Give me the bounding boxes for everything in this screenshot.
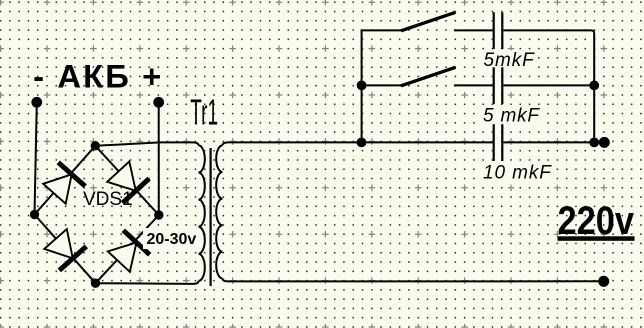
terminal plus (153, 97, 164, 108)
transformer core (210, 148, 212, 286)
capacitor C3 10 mkF (494, 124, 503, 161)
wire bottom node to transformer secondary bottom (96, 281, 199, 284)
wire switch rail vertical (361, 30, 363, 143)
node bridge left (30, 210, 39, 219)
value label 5mkF (481, 50, 537, 71)
node bridge top (91, 141, 100, 150)
capacitor C1 5mkF (494, 12, 503, 49)
terminal 220v bottom (598, 276, 609, 287)
wire minus to bridge left node (35, 102, 37, 214)
wire bridge arm top-right (95, 146, 159, 215)
wire bridge arm left-bottom (35, 215, 96, 284)
node junction right rail at C2 (589, 81, 599, 91)
label VDS1 (bridge designator) (83, 189, 133, 210)
diode D4 (bridge VDS1, bottom-right arm) (108, 230, 150, 271)
diode D1 (bridge VDS1, left-top arm) (43, 162, 85, 203)
wire C1 right lead to right rail (503, 30, 594, 142)
wire bridge arm bottom-right (96, 215, 159, 283)
svg-text:- АКБ +: - АКБ + (33, 58, 163, 95)
node bridge right (154, 210, 163, 219)
value label 10 mkF (481, 163, 553, 184)
wire primary top to capacitor C3 (223, 142, 493, 145)
wire switch S1 lead (361, 29, 402, 31)
wire switch S2 lead (362, 84, 402, 86)
svg-text:VDS1: VDS1 (83, 189, 133, 210)
wire top node to transformer secondary top (95, 142, 198, 145)
svg-text:5 mkF: 5 mkF (483, 106, 540, 127)
value label 5 mkF (481, 106, 543, 127)
wire switch S2 contact lead (454, 84, 493, 86)
terminal minus (31, 97, 42, 108)
wire C2 right lead (503, 84, 594, 86)
capacitor C2 5 mkF (494, 67, 503, 104)
wire switch S1 contact lead (454, 29, 493, 31)
svg-text:20-30v: 20-30v (147, 231, 197, 248)
terminal 220v top (599, 137, 610, 148)
transformer right winding (216, 145, 222, 278)
diode D2 (bridge VDS1, top-right arm) (107, 162, 149, 204)
switch S2 blade (401, 67, 456, 86)
svg-text:Tr1: Tr1 (190, 93, 218, 133)
switch S1 blade (401, 12, 456, 31)
node junction switch S2 (357, 81, 367, 91)
svg-text:10 mkF: 10 mkF (483, 163, 552, 184)
output label 220v (558, 199, 635, 243)
value label 20-30v (143, 228, 200, 249)
wire primary bottom to 220v terminal (223, 278, 604, 281)
wire bridge arm left-top (35, 146, 96, 215)
node junction main line to switch rail (357, 138, 367, 148)
node junction right rail bottom (589, 138, 599, 148)
wire plus to bridge right node (158, 102, 160, 215)
wire C3 right lead to terminal (503, 141, 604, 143)
diode D3 (bridge VDS1, left-bottom arm) (44, 229, 86, 270)
node bridge bottom (91, 279, 100, 288)
svg-text:5mkF: 5mkF (484, 50, 536, 71)
transformer left winding (199, 145, 205, 281)
